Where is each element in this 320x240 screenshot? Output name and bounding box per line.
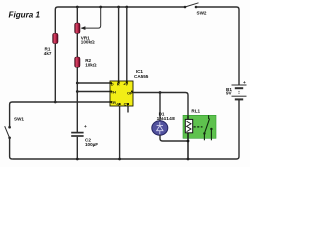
wire C2 to bottom rail: [76, 137, 78, 159]
node VR1 top rail junction: [76, 6, 79, 9]
wire -V pin to bottom rail: [119, 106, 121, 159]
svg-text:SW1: SW1: [14, 117, 24, 122]
resistor R1: [44, 33, 58, 56]
relay coil: [185, 119, 192, 132]
wire R1 bottom to TR line: [54, 44, 56, 103]
wire VR1 to R2: [76, 33, 78, 57]
wire TR line to left rail and SW1: [10, 102, 110, 127]
wire 0V bottom rail: [12, 158, 236, 160]
svg-text:D1: D1: [159, 111, 165, 116]
node -V bottom rail junction: [118, 158, 121, 161]
wire VR1 wiper to top rail: [82, 7, 101, 28]
switch SW1: [5, 117, 25, 140]
switch SW2: [184, 3, 207, 16]
potentiometer VR1: [75, 23, 95, 45]
wire right rail lower: [237, 99, 240, 159]
wire coil bottom: [187, 133, 189, 159]
wire CV stub: [127, 106, 129, 113]
svg-text:9V: 9V: [226, 91, 233, 96]
wire SW1 to bottom rail: [10, 138, 13, 159]
node R1/TR junction: [54, 101, 57, 104]
node coil/D1 junction: [187, 140, 190, 143]
svg-text:RL1: RL1: [191, 109, 200, 114]
node TH junction: [76, 90, 79, 93]
wire TH pin to chain: [77, 91, 110, 93]
node wiper rail junction: [99, 6, 102, 9]
svg-text:SW2: SW2: [197, 11, 207, 16]
svg-text:+: +: [84, 125, 87, 130]
label IC1 CA555: [134, 69, 149, 79]
capacitor C2: [71, 125, 98, 147]
svg-text:100µF: 100µF: [85, 142, 98, 147]
diode D1 1N4148: [152, 111, 175, 135]
wire OP node down to D1: [159, 93, 161, 122]
svg-text:IC1: IC1: [136, 69, 144, 74]
svg-text:10kΩ: 10kΩ: [85, 62, 97, 67]
wire coil top from OP line: [187, 115, 189, 119]
wire OP output to relay: [133, 93, 188, 116]
svg-text:Figura 1: Figura 1: [9, 11, 41, 20]
wire R2 down through D/TH nodes to C2: [76, 67, 78, 132]
node +V pin rail junction: [125, 6, 128, 9]
svg-text:CA555: CA555: [134, 74, 149, 79]
resistor R2: [75, 57, 97, 67]
node R pin rail junction: [117, 6, 120, 9]
relay contact: [194, 115, 213, 140]
wire D1 bottom to coil return: [160, 135, 188, 141]
wire +V top rail right section into right rail: [196, 7, 239, 85]
wire rail to VR1: [76, 7, 78, 23]
svg-text:100kΩ: 100kΩ: [81, 40, 95, 45]
wire D pin to chain: [77, 82, 110, 84]
wire +V top rail left section: [55, 7, 185, 34]
svg-text:4k7: 4k7: [44, 51, 52, 56]
svg-text:1N4148: 1N4148: [157, 116, 176, 122]
wire rail to R pin: [118, 7, 120, 81]
node C2 bottom rail junction: [76, 158, 79, 161]
node coil bottom rail junction: [187, 158, 190, 161]
wire rail to +V pin: [126, 7, 128, 81]
node OP/D1 junction: [159, 91, 162, 94]
svg-text:+: +: [243, 81, 246, 86]
op-amp U1 IC1 CA555 timer body: [110, 81, 133, 106]
relay RL1 box: [183, 109, 216, 139]
battery B1: [226, 81, 247, 100]
wiper arrowhead: [81, 26, 86, 30]
node D junction: [76, 82, 79, 85]
